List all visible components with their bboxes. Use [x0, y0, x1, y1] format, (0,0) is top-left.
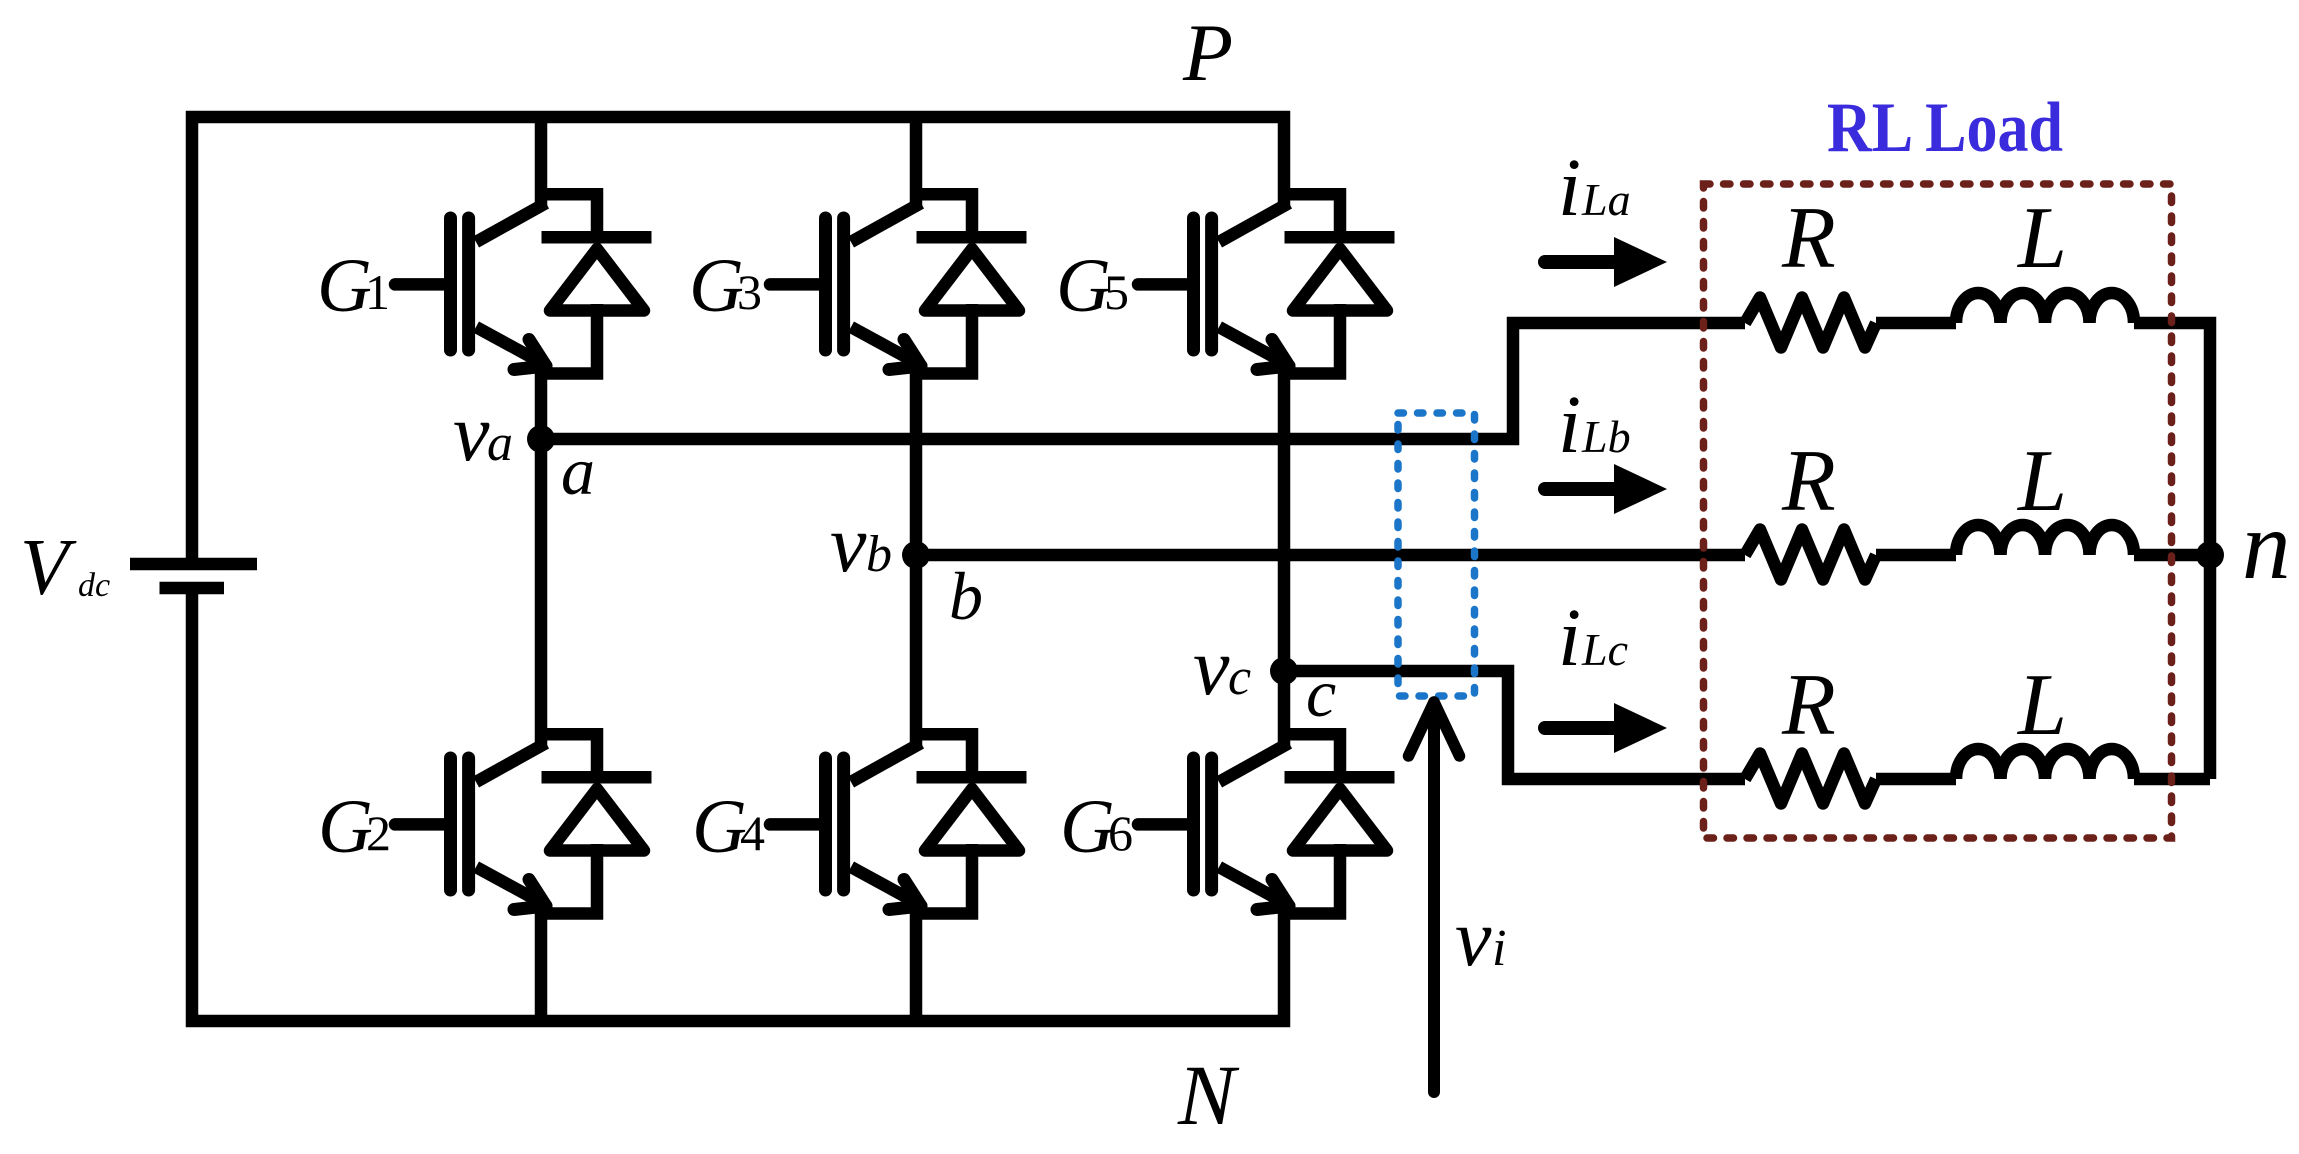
wire phase b after L to node n [2134, 549, 2210, 562]
svg-text:i: i [1558, 591, 1581, 683]
battery Vdc positive plate (long bar) [130, 558, 257, 571]
svg-text:c: c [1306, 655, 1336, 731]
svg-text:v: v [1193, 621, 1230, 712]
label G3 [689, 244, 762, 328]
diode D3 (anti-parallel) [916, 194, 1027, 373]
svg-text:i: i [1558, 141, 1581, 233]
wire bottom emitter stub phase b [910, 903, 923, 1021]
svg-text:RL Load: RL Load [1827, 89, 2063, 167]
diode D4 (anti-parallel) [916, 734, 1027, 913]
label G4 [692, 785, 765, 869]
inductor L phase a [1956, 293, 2134, 323]
arrow vi (points to measurement box) [1409, 702, 1460, 1092]
wire phase a after L to right bus [2134, 323, 2210, 779]
wire phase leg a midpoint vertical [535, 360, 548, 748]
svg-text:5: 5 [1104, 264, 1129, 320]
svg-text:3: 3 [737, 264, 762, 320]
wire phase b output (vb to load) [916, 549, 1745, 562]
svg-text:N: N [1177, 1047, 1240, 1143]
svg-text:v: v [830, 498, 867, 589]
svg-text:L: L [2016, 190, 2067, 287]
svg-text:Lb: Lb [1581, 411, 1631, 462]
svg-text:G: G [689, 244, 744, 328]
node n (neutral) (junction dot) [2196, 541, 2224, 569]
node vc (junction dot) [1270, 657, 1298, 685]
wire phase leg c midpoint vertical [1278, 360, 1291, 748]
svg-text:dc: dc [78, 567, 110, 604]
resistor R phase a [1745, 298, 1876, 348]
resistor R phase b [1745, 530, 1876, 580]
svg-text:L: L [2016, 433, 2067, 530]
transistor G6 (IGBT) [1138, 743, 1289, 910]
svg-text:G: G [692, 785, 747, 869]
inductor L phase c [1956, 749, 2134, 779]
wire phase c after L to right bus [2134, 773, 2210, 786]
transistor G1 (IGBT) [395, 203, 546, 370]
svg-text:G: G [317, 244, 372, 328]
label G6 [1060, 785, 1133, 869]
current arrow iLa [1545, 237, 1667, 287]
label G2 [318, 785, 391, 869]
svg-text:b: b [949, 558, 983, 634]
wire phase c output (vc, step-down to load) [1284, 671, 1745, 779]
transistor G3 (IGBT) [770, 203, 921, 370]
svg-text:1: 1 [365, 264, 390, 320]
svg-text:G: G [1060, 785, 1115, 869]
svg-text:6: 6 [1108, 805, 1133, 861]
node vb (junction dot) [902, 541, 930, 569]
svg-text:4: 4 [740, 805, 765, 861]
battery Vdc negative plate (short bar) [160, 582, 225, 595]
transistor G5 (IGBT) [1138, 203, 1289, 370]
svg-text:V: V [20, 524, 77, 612]
wire phase a between R and L [1876, 317, 1956, 330]
wire DC bus negative rail N (bottom) with left rise to source [192, 588, 1284, 1021]
svg-text:i: i [1492, 920, 1506, 977]
svg-text:P: P [1182, 7, 1233, 98]
wire DC bus positive rail P (top) with left drop to source [192, 117, 1284, 564]
svg-text:v: v [1455, 892, 1492, 983]
transistor G2 (IGBT) [395, 743, 546, 910]
current arrow iLb [1545, 464, 1667, 514]
current arrow iLc [1545, 703, 1667, 753]
svg-text:b: b [866, 526, 892, 583]
svg-text:c: c [1228, 649, 1251, 706]
diode D2 (anti-parallel) [541, 734, 652, 913]
wire phase a output (va to step-up to load) [541, 323, 1745, 439]
wire bottom emitter stub phase a [535, 903, 548, 1021]
diode D6 (anti-parallel) [1284, 734, 1395, 913]
label G1 [317, 244, 390, 328]
measurement box (blue dashed, pole voltage vi) [1398, 413, 1475, 696]
svg-text:R: R [1781, 433, 1836, 530]
wire phase c between R and L [1876, 773, 1956, 786]
transistor G4 (IGBT) [770, 743, 921, 910]
svg-text:2: 2 [366, 805, 391, 861]
svg-text:a: a [487, 415, 513, 472]
wire top collector stub phase a [535, 117, 548, 207]
svg-text:R: R [1781, 190, 1836, 287]
diode D1 (anti-parallel) [541, 194, 652, 373]
node va (junction dot) [527, 425, 555, 453]
label G5 [1056, 244, 1129, 328]
resistor R phase c [1745, 754, 1876, 804]
svg-text:v: v [453, 387, 490, 478]
svg-text:G: G [318, 785, 373, 869]
svg-text:i: i [1558, 378, 1581, 470]
RL load box (brown dashed) [1704, 184, 2172, 838]
svg-text:a: a [561, 433, 595, 509]
svg-text:La: La [1581, 174, 1631, 225]
svg-text:R: R [1781, 657, 1836, 754]
svg-text:n: n [2242, 492, 2291, 599]
diode D5 (anti-parallel) [1284, 194, 1395, 373]
wire top collector stub phase b [910, 117, 923, 207]
svg-text:Lc: Lc [1581, 624, 1628, 675]
svg-text:G: G [1056, 244, 1111, 328]
svg-text:L: L [2016, 657, 2067, 754]
inductor L phase b [1956, 525, 2134, 555]
wire phase leg b midpoint vertical [910, 360, 923, 748]
wire phase b between R and L [1876, 549, 1956, 562]
